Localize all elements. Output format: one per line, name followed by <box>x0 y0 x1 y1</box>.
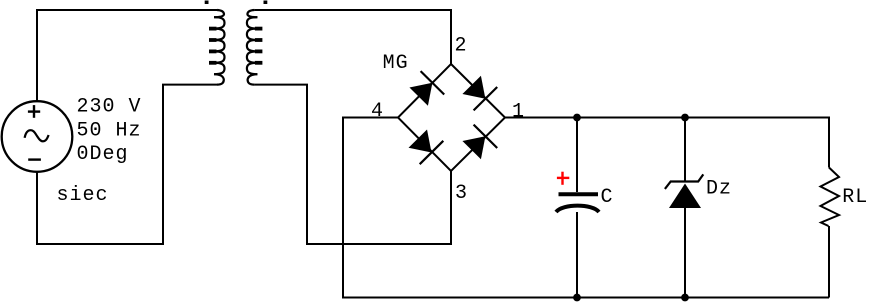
zener diode Dz <box>665 174 703 208</box>
bridge diode D2 (2 to 1) <box>460 73 497 110</box>
svg-text:Dz: Dz <box>706 178 732 201</box>
wire node 1 top rail <box>505 118 829 168</box>
svg-text:RL: RL <box>842 186 868 209</box>
wire zener top <box>684 118 686 183</box>
resistor RL zigzag <box>821 168 840 227</box>
primary polarity dot <box>205 1 209 5</box>
bridge diode D3 (4 to 3) <box>406 127 443 164</box>
wire resistor bottom <box>828 226 830 298</box>
bridge diode D4 (3 to 1) <box>460 125 497 162</box>
svg-text:0Deg: 0Deg <box>77 143 129 166</box>
svg-text:3: 3 <box>455 182 468 205</box>
AC source V1 circle <box>2 101 73 172</box>
wire capacitor top <box>576 118 578 193</box>
junction node bottom of Dz <box>681 294 689 302</box>
capacitor C top plate <box>559 192 599 196</box>
wire capacitor bottom <box>576 212 578 298</box>
svg-text:siec: siec <box>57 184 109 207</box>
capacitor polarity plus (red) <box>557 172 569 185</box>
bridge diamond <box>398 64 505 171</box>
sine mark in source <box>25 130 49 141</box>
bridge diode D1 (4 to 2) <box>407 71 444 108</box>
wire zener bottom <box>684 208 686 298</box>
wire source top to primary <box>37 10 217 102</box>
plus mark in source <box>28 105 40 118</box>
capacitor C bottom plate (curved) <box>556 206 599 212</box>
junction node bottom of C <box>573 294 581 302</box>
secondary polarity dot <box>264 1 268 5</box>
svg-text:4: 4 <box>371 100 384 123</box>
wire node 4 to bottom rail <box>343 118 829 298</box>
svg-text:C: C <box>601 186 614 209</box>
svg-text:2: 2 <box>455 35 468 58</box>
wire primary bottom loop <box>37 85 217 244</box>
svg-text:MG: MG <box>383 52 409 75</box>
svg-text:50 Hz: 50 Hz <box>77 120 142 143</box>
wire secondary bottom to bridge node 3 <box>254 85 451 244</box>
wire secondary top to bridge node 2 <box>254 10 451 64</box>
junction node top-left of C <box>573 114 581 122</box>
transformer secondary coil <box>247 10 263 85</box>
svg-text:1: 1 <box>512 101 525 124</box>
junction node top of Dz <box>681 114 689 122</box>
transformer primary coil <box>209 10 225 85</box>
svg-text:230 V: 230 V <box>77 95 142 118</box>
minus mark in source <box>28 158 41 160</box>
